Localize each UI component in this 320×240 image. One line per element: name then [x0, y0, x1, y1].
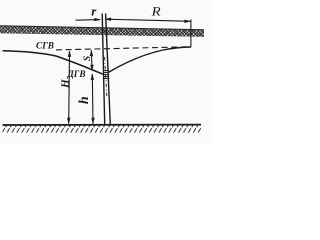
- aquiclude (impermeable bottom) line: [3, 124, 202, 126]
- svg-text:СГВ: СГВ: [36, 40, 54, 50]
- well screen / water level marks inside casing: [103, 70, 109, 78]
- arrow r right: [94, 18, 101, 21]
- svg-text:R: R: [151, 3, 161, 18]
- arrow h down: [91, 118, 94, 125]
- arrow R left (at well): [105, 18, 112, 21]
- arrow R right: [184, 20, 191, 23]
- arrow H down: [67, 118, 70, 125]
- dimension line r: [76, 19, 101, 22]
- svg-text:S: S: [83, 56, 93, 61]
- ground surface band (hatched): [0, 26, 204, 37]
- arrow H up: [68, 50, 71, 57]
- aquiclude hatching: [3, 125, 202, 132]
- ground surface top edge line: [0, 26, 204, 30]
- svg-text:h: h: [77, 96, 92, 104]
- well casing left wall: [102, 14, 105, 125]
- arrow h up (at curve): [91, 73, 94, 80]
- depression curve right branch: [108, 47, 191, 73]
- dimension line H (aquifer head): [68, 51, 71, 123]
- dimension line h (water depth at well): [91, 74, 94, 124]
- dimension line R: [106, 19, 191, 21]
- arrow S up: [90, 50, 93, 57]
- well axis (dash-dot centreline): [105, 57, 107, 97]
- arrow S down (at curve): [90, 65, 93, 71]
- svg-text:Н: Н: [59, 79, 71, 89]
- well casing right wall: [106, 14, 111, 125]
- static water table dashed line: [56, 47, 189, 50]
- depression curve left branch: [3, 51, 103, 74]
- dimension line S (drawdown): [90, 50, 93, 70]
- R extension line (vertical, radius of influence): [190, 20, 192, 48]
